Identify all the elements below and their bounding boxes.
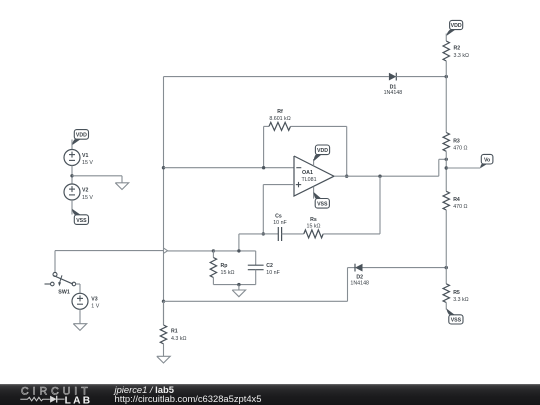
svg-text:4.3 kΩ: 4.3 kΩ (171, 336, 186, 342)
svg-text:VDD: VDD (76, 133, 87, 139)
svg-text:3.3 kΩ: 3.3 kΩ (453, 297, 468, 303)
svg-text:VSS: VSS (451, 317, 462, 323)
svg-text:Vo: Vo (484, 157, 490, 163)
svg-text:470 Ω: 470 Ω (453, 204, 467, 210)
svg-text:OA1: OA1 (302, 170, 313, 176)
svg-text:10 nF: 10 nF (273, 220, 287, 226)
svg-text:R2: R2 (454, 46, 461, 52)
svg-text:R3: R3 (453, 138, 460, 144)
svg-text:8.601 kΩ: 8.601 kΩ (269, 116, 290, 122)
svg-text:470 Ω: 470 Ω (453, 146, 467, 152)
svg-text:1N4148: 1N4148 (384, 90, 403, 96)
svg-text:VSS: VSS (76, 218, 87, 224)
svg-text:Rs: Rs (310, 217, 317, 223)
svg-text:V2: V2 (82, 188, 88, 194)
svg-text:R5: R5 (453, 290, 460, 296)
svg-text:1N4148: 1N4148 (350, 281, 369, 287)
svg-text:R1: R1 (171, 329, 178, 335)
svg-text:VDD: VDD (451, 23, 462, 29)
svg-text:10 nF: 10 nF (266, 270, 280, 276)
svg-text:LAB: LAB (65, 395, 93, 405)
svg-text:3.3 kΩ: 3.3 kΩ (454, 53, 469, 59)
svg-text:VSS: VSS (317, 202, 328, 208)
svg-text:15 V: 15 V (82, 160, 93, 166)
svg-text:SW1: SW1 (58, 290, 70, 296)
svg-text:TL081: TL081 (302, 177, 317, 183)
svg-text:V3: V3 (91, 297, 97, 303)
svg-text:15 V: 15 V (82, 195, 93, 201)
svg-text:Cs: Cs (275, 214, 282, 220)
svg-text:Rp: Rp (221, 263, 228, 269)
svg-text:C2: C2 (266, 263, 273, 269)
svg-text:V1: V1 (82, 153, 88, 159)
svg-text:Rf: Rf (277, 109, 283, 115)
svg-text:15 kΩ: 15 kΩ (221, 270, 235, 276)
svg-text:R4: R4 (453, 197, 460, 203)
svg-text:1 V: 1 V (91, 304, 99, 310)
svg-text:VDD: VDD (317, 148, 328, 154)
svg-text:15 kΩ: 15 kΩ (307, 223, 321, 229)
